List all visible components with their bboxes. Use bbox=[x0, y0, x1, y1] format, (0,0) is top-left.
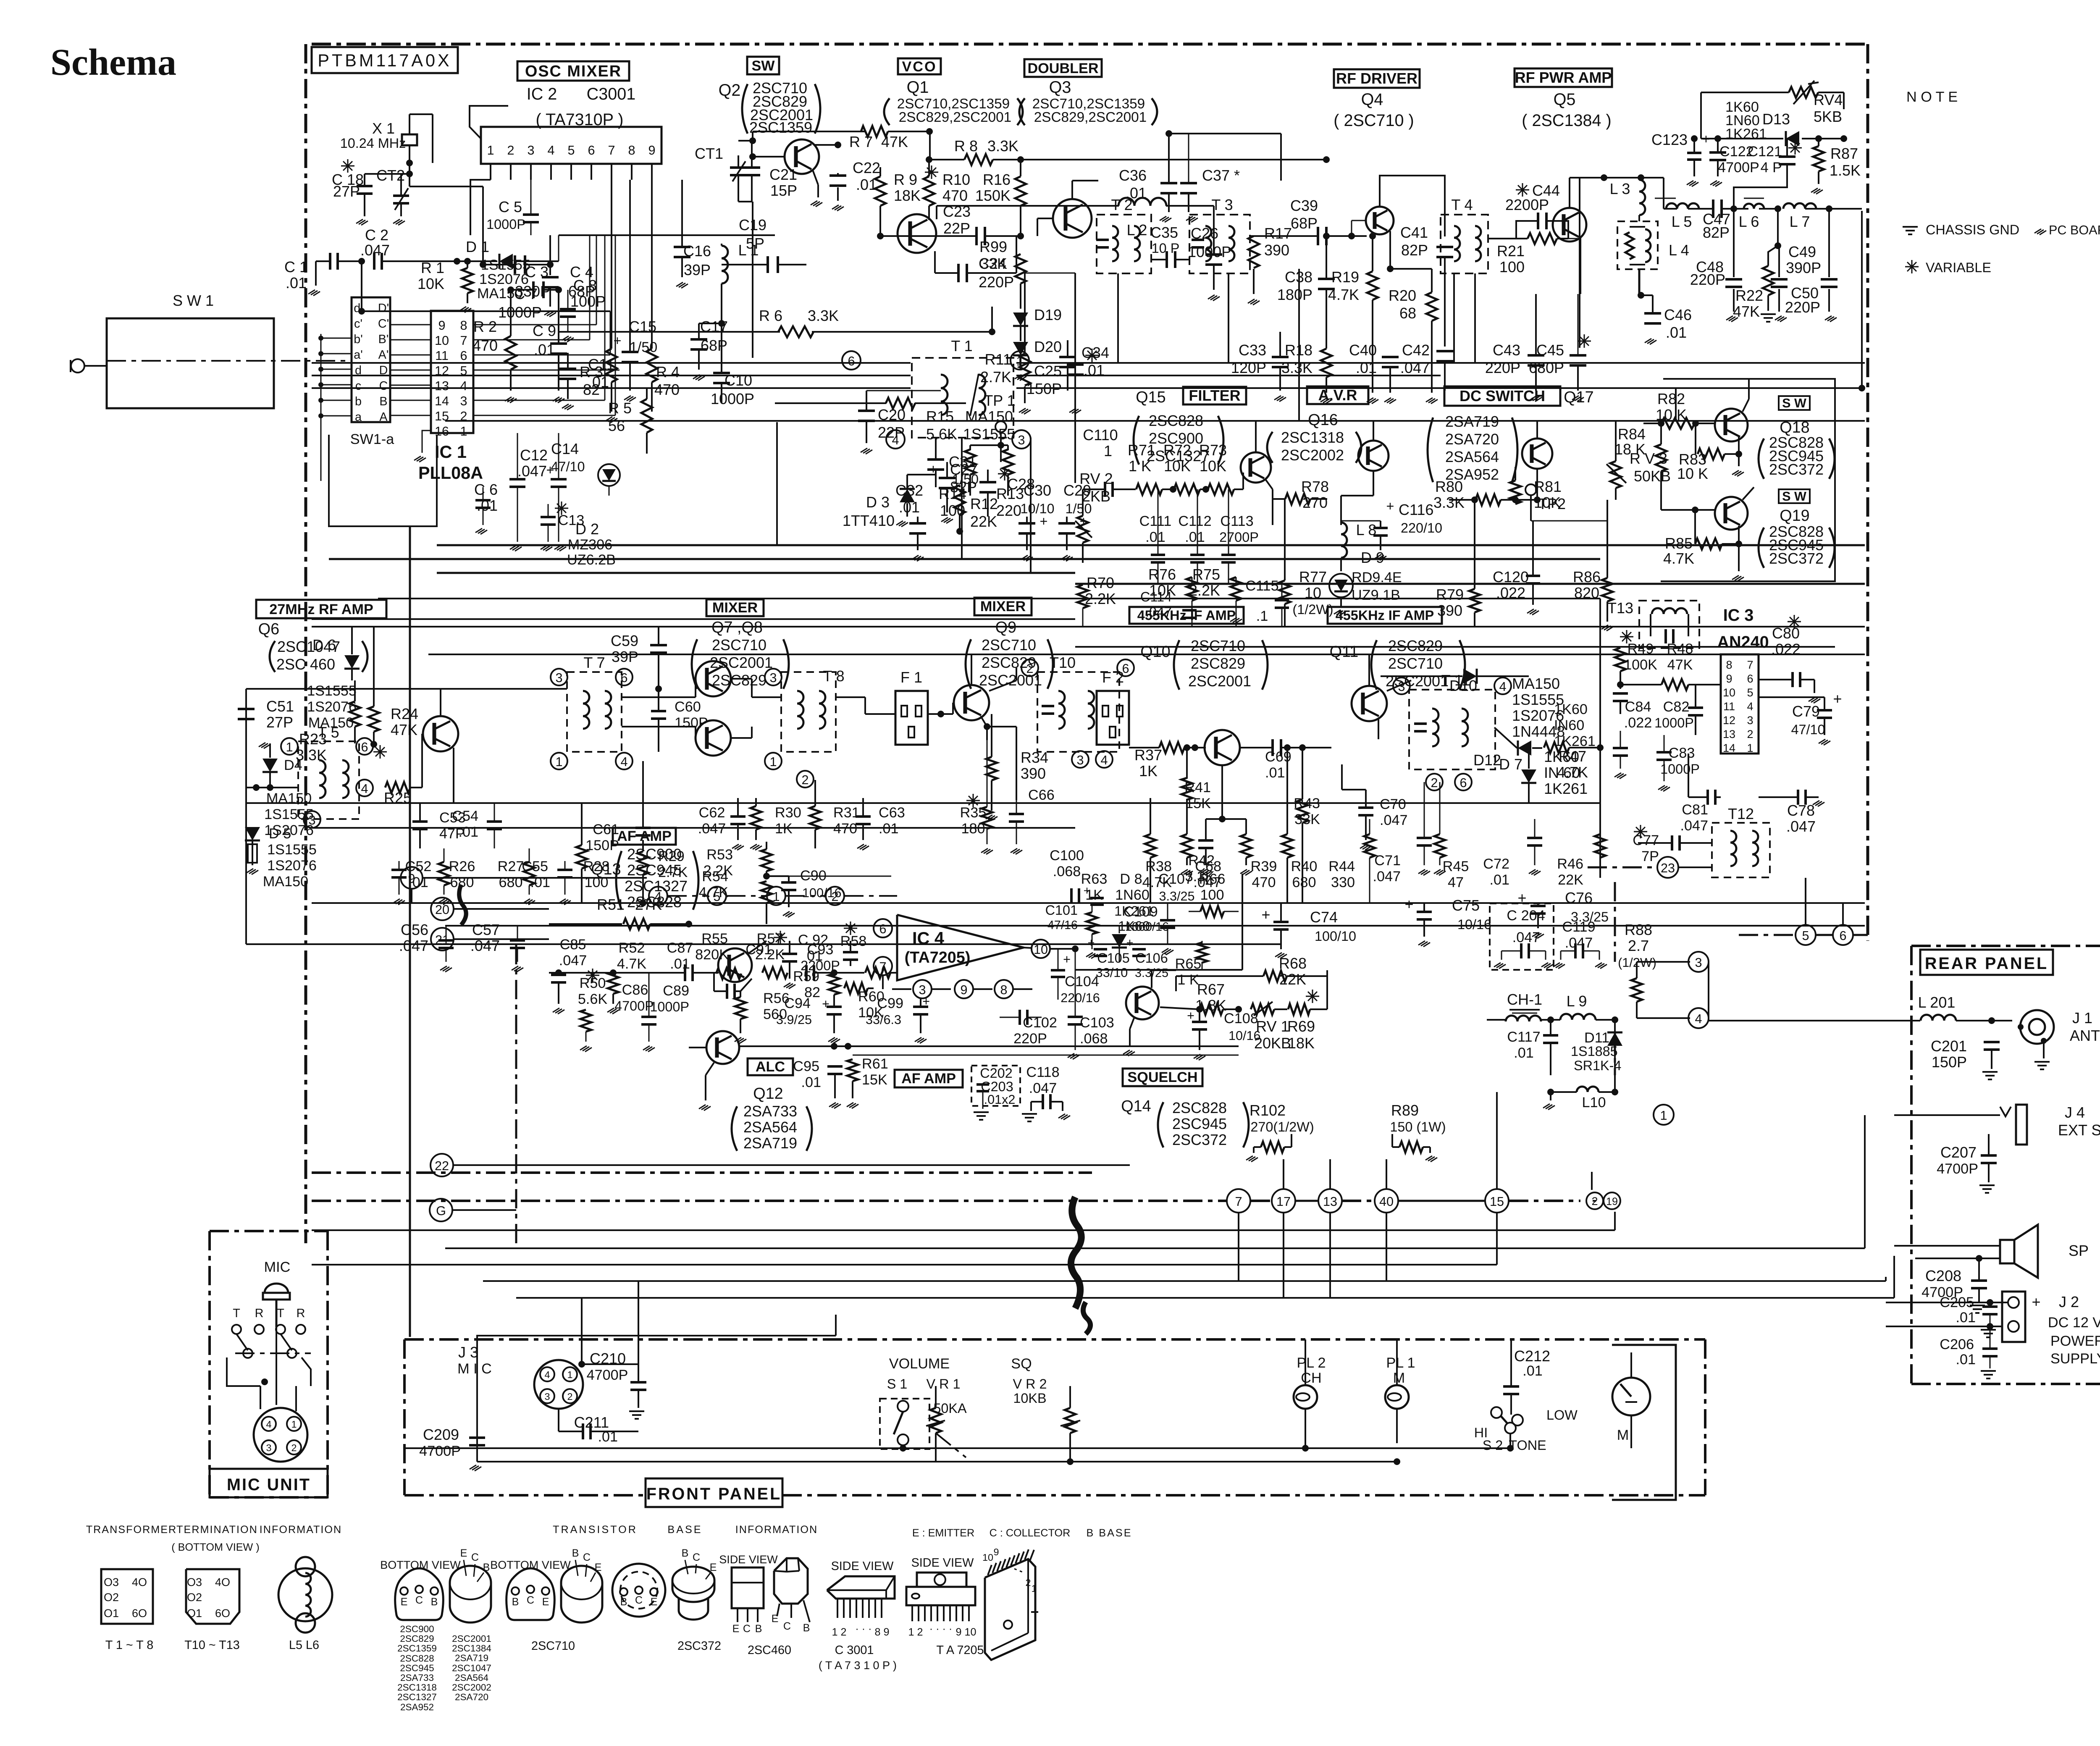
T5 pin6 bbox=[356, 738, 373, 755]
svg-text:.01: .01 bbox=[1185, 529, 1205, 545]
svg-text:RV 1: RV 1 bbox=[1256, 1018, 1289, 1035]
rear panel dash-dot border bbox=[1911, 945, 2100, 947]
svg-text:+: + bbox=[1187, 1008, 1194, 1023]
svg-text:SQ: SQ bbox=[1011, 1356, 1032, 1372]
svg-text:1S1555: 1S1555 bbox=[267, 842, 317, 858]
svg-text:19: 19 bbox=[1606, 1196, 1618, 1208]
wire dash connector row bbox=[312, 1200, 1226, 1202]
svg-text:C201: C201 bbox=[1931, 1037, 1967, 1055]
potentiometer VR2 bbox=[1065, 1408, 1076, 1433]
svg-text:C: C bbox=[471, 1552, 479, 1563]
svg-text:SW1-a: SW1-a bbox=[350, 431, 394, 447]
svg-text:9: 9 bbox=[438, 318, 445, 333]
svg-text:2: 2 bbox=[801, 773, 808, 787]
svg-text:R50: R50 bbox=[580, 975, 606, 991]
capacitor C52 bbox=[391, 869, 407, 871]
inductor L4 tank bbox=[1617, 221, 1658, 269]
svg-text:C 2: C 2 bbox=[365, 226, 388, 244]
svg-text:C86: C86 bbox=[622, 982, 648, 998]
svg-text:1N60: 1N60 bbox=[1115, 887, 1150, 903]
mic pin 2 bbox=[287, 1440, 301, 1455]
svg-text:a': a' bbox=[354, 348, 363, 362]
svg-text:68P: 68P bbox=[1291, 215, 1318, 232]
section label SQUELCH bbox=[1123, 1069, 1202, 1086]
svg-text:C21: C21 bbox=[769, 166, 797, 183]
svg-text:R78: R78 bbox=[1301, 478, 1329, 495]
capacitor C49 bbox=[1771, 278, 1788, 281]
svg-text:2SC710: 2SC710 bbox=[712, 636, 766, 654]
svg-text:R20: R20 bbox=[1389, 287, 1416, 304]
svg-text:1S1555: 1S1555 bbox=[307, 683, 357, 699]
svg-text:A: A bbox=[379, 410, 388, 424]
svg-text:1S1555: 1S1555 bbox=[963, 425, 1015, 443]
svg-text:150 (1W): 150 (1W) bbox=[1390, 1119, 1446, 1134]
svg-text:3.3/25: 3.3/25 bbox=[1135, 966, 1168, 980]
wire T7 to Q7 Q8 bbox=[622, 696, 696, 698]
svg-text:Q2: Q2 bbox=[719, 81, 741, 100]
svg-text:1S1555: 1S1555 bbox=[264, 806, 314, 822]
svg-text:27P: 27P bbox=[266, 714, 293, 731]
svg-text:c': c' bbox=[354, 317, 362, 331]
wire Q7 to T8 bbox=[731, 678, 752, 680]
svg-text:R31: R31 bbox=[833, 805, 860, 821]
svg-text:.1: .1 bbox=[1256, 608, 1268, 624]
svg-text:3: 3 bbox=[1747, 714, 1753, 727]
mic connector circle bbox=[254, 1408, 307, 1462]
svg-text:2700P: 2700P bbox=[1219, 530, 1259, 545]
svg-text:C115: C115 bbox=[1245, 578, 1278, 594]
svg-text:L 5: L 5 bbox=[1672, 213, 1692, 230]
svg-text:4O: 4O bbox=[215, 1576, 230, 1588]
wire CT1 top rail bbox=[752, 131, 753, 141]
svg-text:2.7: 2.7 bbox=[1628, 937, 1649, 954]
resistor R29 bbox=[638, 851, 648, 875]
svg-text:S W: S W bbox=[1782, 396, 1806, 410]
connector circle 40 bbox=[1375, 1189, 1398, 1213]
svg-text:Q11: Q11 bbox=[1330, 643, 1359, 661]
svg-text:1: 1 bbox=[1031, 1583, 1037, 1594]
wire X1 top bbox=[409, 114, 410, 123]
svg-text:220P: 220P bbox=[1785, 299, 1820, 316]
svg-text:2SC828: 2SC828 bbox=[1149, 412, 1203, 429]
bus wire C bbox=[312, 387, 911, 389]
svg-text:C113: C113 bbox=[1220, 513, 1253, 529]
svg-text:C84: C84 bbox=[1625, 699, 1651, 715]
svg-text:C: C bbox=[527, 1594, 534, 1606]
svg-text:1S2076: 1S2076 bbox=[479, 271, 529, 287]
svg-text:TERMINATION: TERMINATION bbox=[176, 1524, 258, 1536]
svg-text:10/10: 10/10 bbox=[1020, 501, 1054, 516]
wire Q5 collector to top rail bbox=[1569, 178, 1570, 208]
diode D7 bbox=[1518, 740, 1531, 756]
svg-text:47K: 47K bbox=[1733, 303, 1760, 320]
svg-text:T A 7205: T A 7205 bbox=[936, 1644, 984, 1657]
svg-text:3: 3 bbox=[266, 1442, 271, 1453]
svg-text:T 1 ~ T 8: T 1 ~ T 8 bbox=[105, 1638, 153, 1652]
svg-text:2SC1359: 2SC1359 bbox=[397, 1643, 437, 1654]
svg-text:40: 40 bbox=[1379, 1195, 1394, 1209]
bus wire A bbox=[312, 362, 911, 364]
wire F1 out bbox=[928, 713, 953, 715]
svg-text:10: 10 bbox=[1723, 686, 1735, 699]
svg-text:R10: R10 bbox=[942, 171, 970, 188]
svg-text:C22: C22 bbox=[853, 159, 880, 176]
svg-text:T 3: T 3 bbox=[1211, 196, 1233, 213]
wire Q3 base bbox=[1037, 218, 1054, 219]
transistor Q19 bbox=[1715, 497, 1748, 530]
svg-text:C35: C35 bbox=[1150, 224, 1178, 241]
section label REAR PANEL bbox=[1920, 950, 2053, 975]
T11 pin2 bbox=[1426, 774, 1443, 790]
svg-text:PTBM117A0X: PTBM117A0X bbox=[318, 51, 451, 70]
svg-text:6O: 6O bbox=[215, 1607, 230, 1620]
T8 pin1 bbox=[765, 753, 782, 769]
svg-text:2: 2 bbox=[291, 1442, 297, 1453]
capacitor C39 bbox=[1317, 227, 1319, 245]
svg-text:VOLUME: VOLUME bbox=[889, 1356, 950, 1372]
IC1 pin block bbox=[431, 311, 473, 433]
transistor case cylinder 2 bbox=[561, 1566, 602, 1623]
svg-text:R87: R87 bbox=[1830, 145, 1858, 162]
svg-text:C117: C117 bbox=[1507, 1029, 1540, 1045]
svg-text:2200P: 2200P bbox=[1505, 196, 1549, 213]
wire Q19 collector bbox=[1743, 487, 1754, 500]
capacitor C46 bbox=[1652, 295, 1654, 313]
svg-text:5.6K: 5.6K bbox=[578, 991, 608, 1007]
svg-text:5: 5 bbox=[713, 890, 720, 904]
mic pin 1 bbox=[287, 1417, 301, 1431]
section label DC SWITCH bbox=[1444, 386, 1560, 406]
svg-text:EXT SP: EXT SP bbox=[2058, 1121, 2100, 1139]
svg-text:R21: R21 bbox=[1497, 242, 1525, 260]
bus wire D riser bbox=[1861, 211, 1863, 388]
svg-text:5KB: 5KB bbox=[1814, 108, 1842, 125]
wire band bottom3 bbox=[1075, 646, 1835, 648]
svg-text:R84: R84 bbox=[1618, 425, 1646, 443]
svg-text:MA150: MA150 bbox=[477, 286, 522, 302]
svg-text:.047: .047 bbox=[1029, 1080, 1057, 1096]
svg-text:E: E bbox=[460, 1547, 467, 1559]
diode D20 bbox=[1013, 342, 1028, 355]
wire Q2 collector bbox=[814, 144, 838, 146]
ink scribble 3 bbox=[459, 885, 466, 925]
section label SW bbox=[747, 57, 779, 74]
svg-text:3.3/25: 3.3/25 bbox=[1159, 889, 1194, 903]
svg-text:E: E bbox=[595, 1562, 602, 1573]
svg-text:E: E bbox=[651, 1596, 658, 1608]
svg-text:.068: .068 bbox=[1080, 1031, 1108, 1047]
svg-text:Q19: Q19 bbox=[1780, 507, 1809, 525]
svg-text:8 9: 8 9 bbox=[874, 1626, 889, 1638]
svg-text:1: 1 bbox=[1016, 354, 1023, 368]
svg-text:LOW: LOW bbox=[1546, 1407, 1578, 1423]
svg-text:R66: R66 bbox=[1199, 871, 1226, 887]
svg-text:D12: D12 bbox=[1473, 751, 1501, 769]
svg-text:+: + bbox=[1040, 514, 1048, 529]
svg-text:1K261: 1K261 bbox=[1554, 733, 1596, 749]
svg-text:6: 6 bbox=[879, 922, 886, 936]
svg-text:150P: 150P bbox=[1932, 1053, 1967, 1071]
svg-text:.047: .047 bbox=[1400, 359, 1430, 376]
svg-text:C33: C33 bbox=[1239, 341, 1266, 359]
svg-text:( 2SC710 ): ( 2SC710 ) bbox=[1333, 111, 1414, 130]
svg-text:2SC710: 2SC710 bbox=[1388, 655, 1443, 672]
T1 pin 1 bbox=[1011, 351, 1029, 370]
svg-text:22P: 22P bbox=[878, 424, 905, 441]
wire IF bus 2 bbox=[445, 925, 1865, 927]
svg-text:2SC829,2SC2001: 2SC829,2SC2001 bbox=[899, 110, 1011, 125]
jack J2 power bbox=[2002, 1292, 2025, 1342]
wire to IC2 pin2 bbox=[549, 235, 551, 265]
main PCB dash-dot border left bbox=[304, 44, 307, 1243]
svg-text:9 10: 9 10 bbox=[955, 1626, 976, 1638]
wires SW1 to pin block bbox=[390, 324, 431, 326]
svg-text:O1: O1 bbox=[187, 1607, 202, 1620]
svg-text:R19: R19 bbox=[1331, 268, 1359, 286]
svg-text:C63: C63 bbox=[879, 805, 905, 821]
filter F1 bbox=[895, 691, 928, 745]
connector circle 15 bbox=[1485, 1189, 1509, 1213]
wire Q18 collector bbox=[1743, 399, 1749, 412]
capacitor C60 bbox=[651, 710, 666, 712]
svg-text:C12: C12 bbox=[520, 446, 548, 464]
T7 pin4 bbox=[616, 753, 633, 769]
lower band line bbox=[246, 943, 1281, 945]
svg-text:C32: C32 bbox=[895, 482, 923, 499]
svg-text:L 7: L 7 bbox=[1790, 213, 1810, 230]
svg-text:R72: R72 bbox=[1163, 441, 1191, 459]
wire C18 CT2 to X1 bbox=[365, 173, 409, 175]
svg-text:( 2SC1384 ): ( 2SC1384 ) bbox=[1522, 111, 1611, 130]
svg-text:c: c bbox=[355, 379, 361, 393]
IC4 pin 6 bbox=[874, 919, 892, 937]
transformer T11 bbox=[1409, 690, 1495, 769]
svg-text:C207: C207 bbox=[1940, 1144, 1977, 1161]
wire band bottom bbox=[312, 618, 1075, 620]
svg-text:PL 2: PL 2 bbox=[1297, 1355, 1326, 1371]
svg-text:2SC372: 2SC372 bbox=[1172, 1131, 1227, 1148]
main PCB dash-dot border right bbox=[1866, 44, 1869, 941]
wires lamps to bus bbox=[1305, 1436, 1306, 1448]
svg-text:B': B' bbox=[378, 333, 389, 346]
svg-text:R46: R46 bbox=[1557, 856, 1583, 872]
svg-text:68: 68 bbox=[1399, 305, 1416, 322]
diode D10 bbox=[1463, 669, 1477, 684]
svg-text:PL 1: PL 1 bbox=[1386, 1355, 1415, 1371]
PLL block outer box bbox=[329, 435, 437, 526]
svg-text:7: 7 bbox=[1747, 659, 1753, 671]
svg-text:7: 7 bbox=[608, 143, 615, 158]
section label MIXER bbox=[706, 599, 764, 616]
cluster box bbox=[1242, 874, 1243, 970]
svg-text:9: 9 bbox=[1726, 672, 1732, 685]
svg-text:10/16: 10/16 bbox=[1457, 917, 1491, 932]
capacitor C27 bbox=[927, 458, 944, 461]
wire T8 to F1 bbox=[836, 696, 865, 698]
svg-text:9: 9 bbox=[648, 143, 655, 158]
svg-text:5: 5 bbox=[567, 143, 575, 158]
coil L5 L6 diagram bbox=[278, 1568, 332, 1621]
transformer T4 bbox=[1441, 215, 1488, 273]
resistor R13 bbox=[1003, 449, 1013, 475]
capacitor C26 bbox=[1205, 253, 1222, 256]
svg-text:C11: C11 bbox=[588, 356, 614, 373]
svg-text:C : COLLECTOR: C : COLLECTOR bbox=[990, 1527, 1071, 1539]
svg-text:.022: .022 bbox=[1771, 641, 1801, 658]
capacitor C37 bbox=[1180, 182, 1197, 184]
capacitor C20 bbox=[858, 410, 875, 412]
wires from left circles bbox=[423, 877, 647, 879]
svg-text:455KHz IF AMP: 455KHz IF AMP bbox=[1137, 608, 1236, 623]
svg-text:11: 11 bbox=[1723, 700, 1735, 713]
front panel bus wires bbox=[404, 1447, 1510, 1449]
svg-text:R37: R37 bbox=[1134, 746, 1162, 764]
svg-text:TRANSFORMER: TRANSFORMER bbox=[86, 1524, 177, 1536]
svg-text:2SC900: 2SC900 bbox=[627, 845, 682, 863]
svg-text:82P: 82P bbox=[1401, 242, 1428, 259]
svg-text:R11: R11 bbox=[985, 351, 1011, 368]
svg-text:1000P: 1000P bbox=[650, 999, 689, 1014]
svg-text:10K: 10K bbox=[1200, 457, 1226, 475]
svg-text:C212: C212 bbox=[1514, 1347, 1550, 1365]
svg-text:V R 2: V R 2 bbox=[1013, 1376, 1047, 1392]
capacitor C80 bbox=[1788, 621, 1801, 622]
svg-text:C25: C25 bbox=[1034, 362, 1062, 380]
riser from T4 bbox=[1453, 273, 1455, 363]
svg-text:1: 1 bbox=[567, 1369, 572, 1380]
T1 pin 6 bbox=[842, 351, 861, 370]
svg-text:C59: C59 bbox=[611, 632, 638, 649]
svg-text:220/16: 220/16 bbox=[1060, 991, 1100, 1005]
svg-text:47: 47 bbox=[1448, 874, 1464, 890]
transistor Q16 bbox=[1358, 441, 1389, 471]
capacitor C48 bbox=[1733, 209, 1735, 277]
svg-text:.01: .01 bbox=[1145, 529, 1165, 545]
svg-text:C114: C114 bbox=[1140, 589, 1172, 604]
resistor R31 bbox=[810, 806, 821, 830]
wire Q9 emitter bbox=[984, 715, 987, 740]
connector circle 23 bbox=[1657, 857, 1678, 878]
svg-text:C78: C78 bbox=[1787, 802, 1815, 819]
svg-text:.01: .01 bbox=[670, 956, 690, 972]
node L6 L7 bbox=[1759, 208, 1778, 210]
svg-text:C13: C13 bbox=[558, 512, 585, 528]
svg-text:R99: R99 bbox=[979, 238, 1007, 255]
transistor case angled 2SC460 bbox=[774, 1558, 808, 1604]
svg-text:100P: 100P bbox=[570, 293, 606, 310]
svg-text:O3: O3 bbox=[104, 1576, 119, 1588]
svg-text:5.6K: 5.6K bbox=[926, 425, 957, 443]
svg-text:+: + bbox=[1702, 131, 1710, 147]
svg-text:C112: C112 bbox=[1178, 513, 1211, 529]
transformer T1-T8 pin diagram bbox=[101, 1569, 153, 1624]
svg-text:2SC900: 2SC900 bbox=[400, 1624, 434, 1634]
label box FRONT PANEL bbox=[646, 1478, 782, 1507]
svg-text:4: 4 bbox=[361, 782, 368, 796]
svg-text:B: B bbox=[682, 1547, 689, 1559]
transistor case cylinder two tier bbox=[672, 1567, 714, 1602]
capacitor C91 bbox=[774, 937, 787, 938]
svg-text:DOUBLER: DOUBLER bbox=[1027, 60, 1098, 76]
svg-text:INFORMATION: INFORMATION bbox=[260, 1524, 342, 1536]
svg-text:C99: C99 bbox=[877, 995, 903, 1011]
svg-text:2SA733: 2SA733 bbox=[743, 1103, 797, 1120]
svg-text:L 201: L 201 bbox=[1918, 994, 1956, 1011]
svg-text:6: 6 bbox=[620, 671, 627, 685]
svg-text:390P: 390P bbox=[1786, 259, 1821, 276]
svg-text:4700P: 4700P bbox=[419, 1443, 461, 1459]
svg-text:27MHz RF AMP: 27MHz RF AMP bbox=[269, 601, 373, 617]
capacitors C202 C203 bbox=[971, 1066, 1020, 1106]
capacitor C22 bbox=[837, 173, 839, 176]
svg-text:.047: .047 bbox=[399, 937, 428, 954]
resistor R8 bbox=[930, 159, 964, 160]
svg-text:b': b' bbox=[354, 333, 363, 346]
svg-text:5P: 5P bbox=[746, 235, 764, 252]
svg-text:INFORMATION: INFORMATION bbox=[735, 1524, 818, 1536]
svg-text:Q10: Q10 bbox=[1140, 643, 1170, 661]
svg-text:MIC: MIC bbox=[264, 1259, 291, 1275]
connector circle 6 bbox=[1833, 925, 1853, 945]
capacitor C33 bbox=[1272, 356, 1289, 358]
svg-text:C70: C70 bbox=[1380, 796, 1406, 812]
transformer T12 bbox=[1712, 823, 1770, 877]
svg-text:.01: .01 bbox=[1514, 1045, 1534, 1061]
meter M bbox=[1612, 1345, 1676, 1500]
svg-text:4: 4 bbox=[1499, 680, 1506, 694]
svg-text:S 2: S 2 bbox=[1483, 1438, 1503, 1453]
svg-text:T 1: T 1 bbox=[951, 337, 972, 354]
vertical bus left of SW1 rows bbox=[320, 334, 322, 481]
svg-text:G: G bbox=[436, 1204, 446, 1218]
svg-text:2SA564: 2SA564 bbox=[1445, 448, 1499, 465]
svg-text:1S1885: 1S1885 bbox=[1571, 1044, 1618, 1059]
svg-text:.01: .01 bbox=[1522, 1363, 1543, 1379]
svg-text:4: 4 bbox=[1100, 753, 1108, 767]
T10 pin4 bbox=[1096, 751, 1113, 768]
svg-text:2SC2001: 2SC2001 bbox=[1188, 672, 1251, 690]
wire band bottom4 bbox=[428, 654, 1865, 655]
svg-text:6: 6 bbox=[588, 143, 595, 158]
svg-text:E : EMITTER: E : EMITTER bbox=[912, 1527, 974, 1539]
svg-text:3.3K: 3.3K bbox=[808, 307, 839, 324]
svg-text:.068: .068 bbox=[1053, 864, 1081, 880]
svg-text:E: E bbox=[732, 1623, 740, 1635]
svg-text:2SC828: 2SC828 bbox=[400, 1653, 434, 1664]
vertical risers to IC2 bbox=[589, 235, 591, 340]
svg-text:AF AMP: AF AMP bbox=[617, 828, 672, 844]
svg-text:L5 L6: L5 L6 bbox=[289, 1638, 319, 1652]
capacitor C40 bbox=[1382, 356, 1399, 358]
svg-text:2SC829: 2SC829 bbox=[1191, 655, 1245, 672]
svg-text:+: + bbox=[1261, 906, 1270, 923]
svg-text:A.V.R: A.V.R bbox=[1318, 386, 1357, 404]
svg-text:R 5: R 5 bbox=[608, 399, 632, 417]
svg-text:2SA564: 2SA564 bbox=[455, 1672, 488, 1683]
svg-text:C: C bbox=[415, 1594, 423, 1606]
svg-text:D 9: D 9 bbox=[1361, 549, 1384, 566]
svg-text:C60: C60 bbox=[675, 699, 701, 715]
capacitor C54 bbox=[487, 820, 502, 823]
svg-text:.047: .047 bbox=[1680, 818, 1708, 834]
svg-text:ANT: ANT bbox=[2070, 1027, 2100, 1044]
svg-text:B: B bbox=[755, 1623, 762, 1635]
svg-text:2SC372: 2SC372 bbox=[677, 1639, 721, 1653]
mic pin 4 bbox=[262, 1417, 276, 1431]
svg-text:.047: .047 bbox=[559, 953, 587, 969]
svg-text:R53: R53 bbox=[706, 847, 733, 863]
svg-text:39P: 39P bbox=[684, 261, 711, 278]
